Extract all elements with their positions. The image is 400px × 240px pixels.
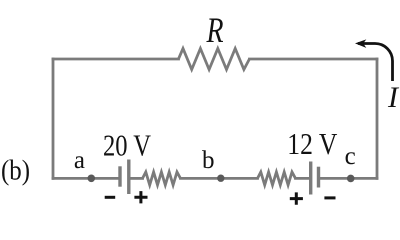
svg-text:b: b	[202, 147, 215, 174]
node a (junction dot)	[88, 175, 96, 183]
svg-text:R: R	[206, 10, 224, 50]
svg-text:20 V: 20 V	[103, 127, 151, 162]
svg-text:a: a	[74, 147, 85, 174]
resistor r1 (zigzag between battery 20V and node b)	[143, 172, 181, 185]
wire: battery 12V to bottom-right corner through node c	[320, 177, 377, 180]
svg-text:12 V: 12 V	[287, 126, 338, 161]
plus sign of battery 20V	[134, 191, 147, 203]
wire: left vertical side	[52, 59, 55, 178]
current arrow head	[355, 39, 366, 48]
resistor r2 (zigzag between node b and battery 12V)	[258, 172, 296, 185]
wire: resistor r2 to battery 12V	[296, 177, 310, 180]
plus sign of battery 12V	[290, 192, 303, 204]
wire: right vertical side	[376, 59, 379, 178]
wire: battery 20V to resistor r1	[131, 177, 143, 180]
resistor R (zigzag, top)	[179, 49, 250, 70]
node c (junction dot)	[347, 175, 355, 183]
battery V1 20V positive plate (long)	[127, 160, 130, 195]
wire: top side left segment	[53, 58, 179, 61]
wire: bottom, corner to battery 20V	[53, 177, 118, 180]
battery V1 20V negative plate (short)	[118, 166, 121, 186]
wire: top side right segment	[250, 58, 378, 61]
battery V2 12V positive plate (long)	[309, 162, 312, 195]
svg-text:I: I	[387, 81, 400, 114]
wire: resistor r1 to resistor r2 through node b	[181, 177, 258, 180]
svg-text:c: c	[345, 143, 356, 170]
current arrow I (curved)	[358, 44, 393, 82]
node b (junction dot)	[217, 175, 224, 182]
battery V2 12V negative plate (short)	[317, 167, 320, 188]
minus sign of battery 20V	[105, 196, 116, 199]
minus sign of battery 12V	[324, 196, 335, 199]
svg-text:(b): (b)	[1, 154, 30, 186]
